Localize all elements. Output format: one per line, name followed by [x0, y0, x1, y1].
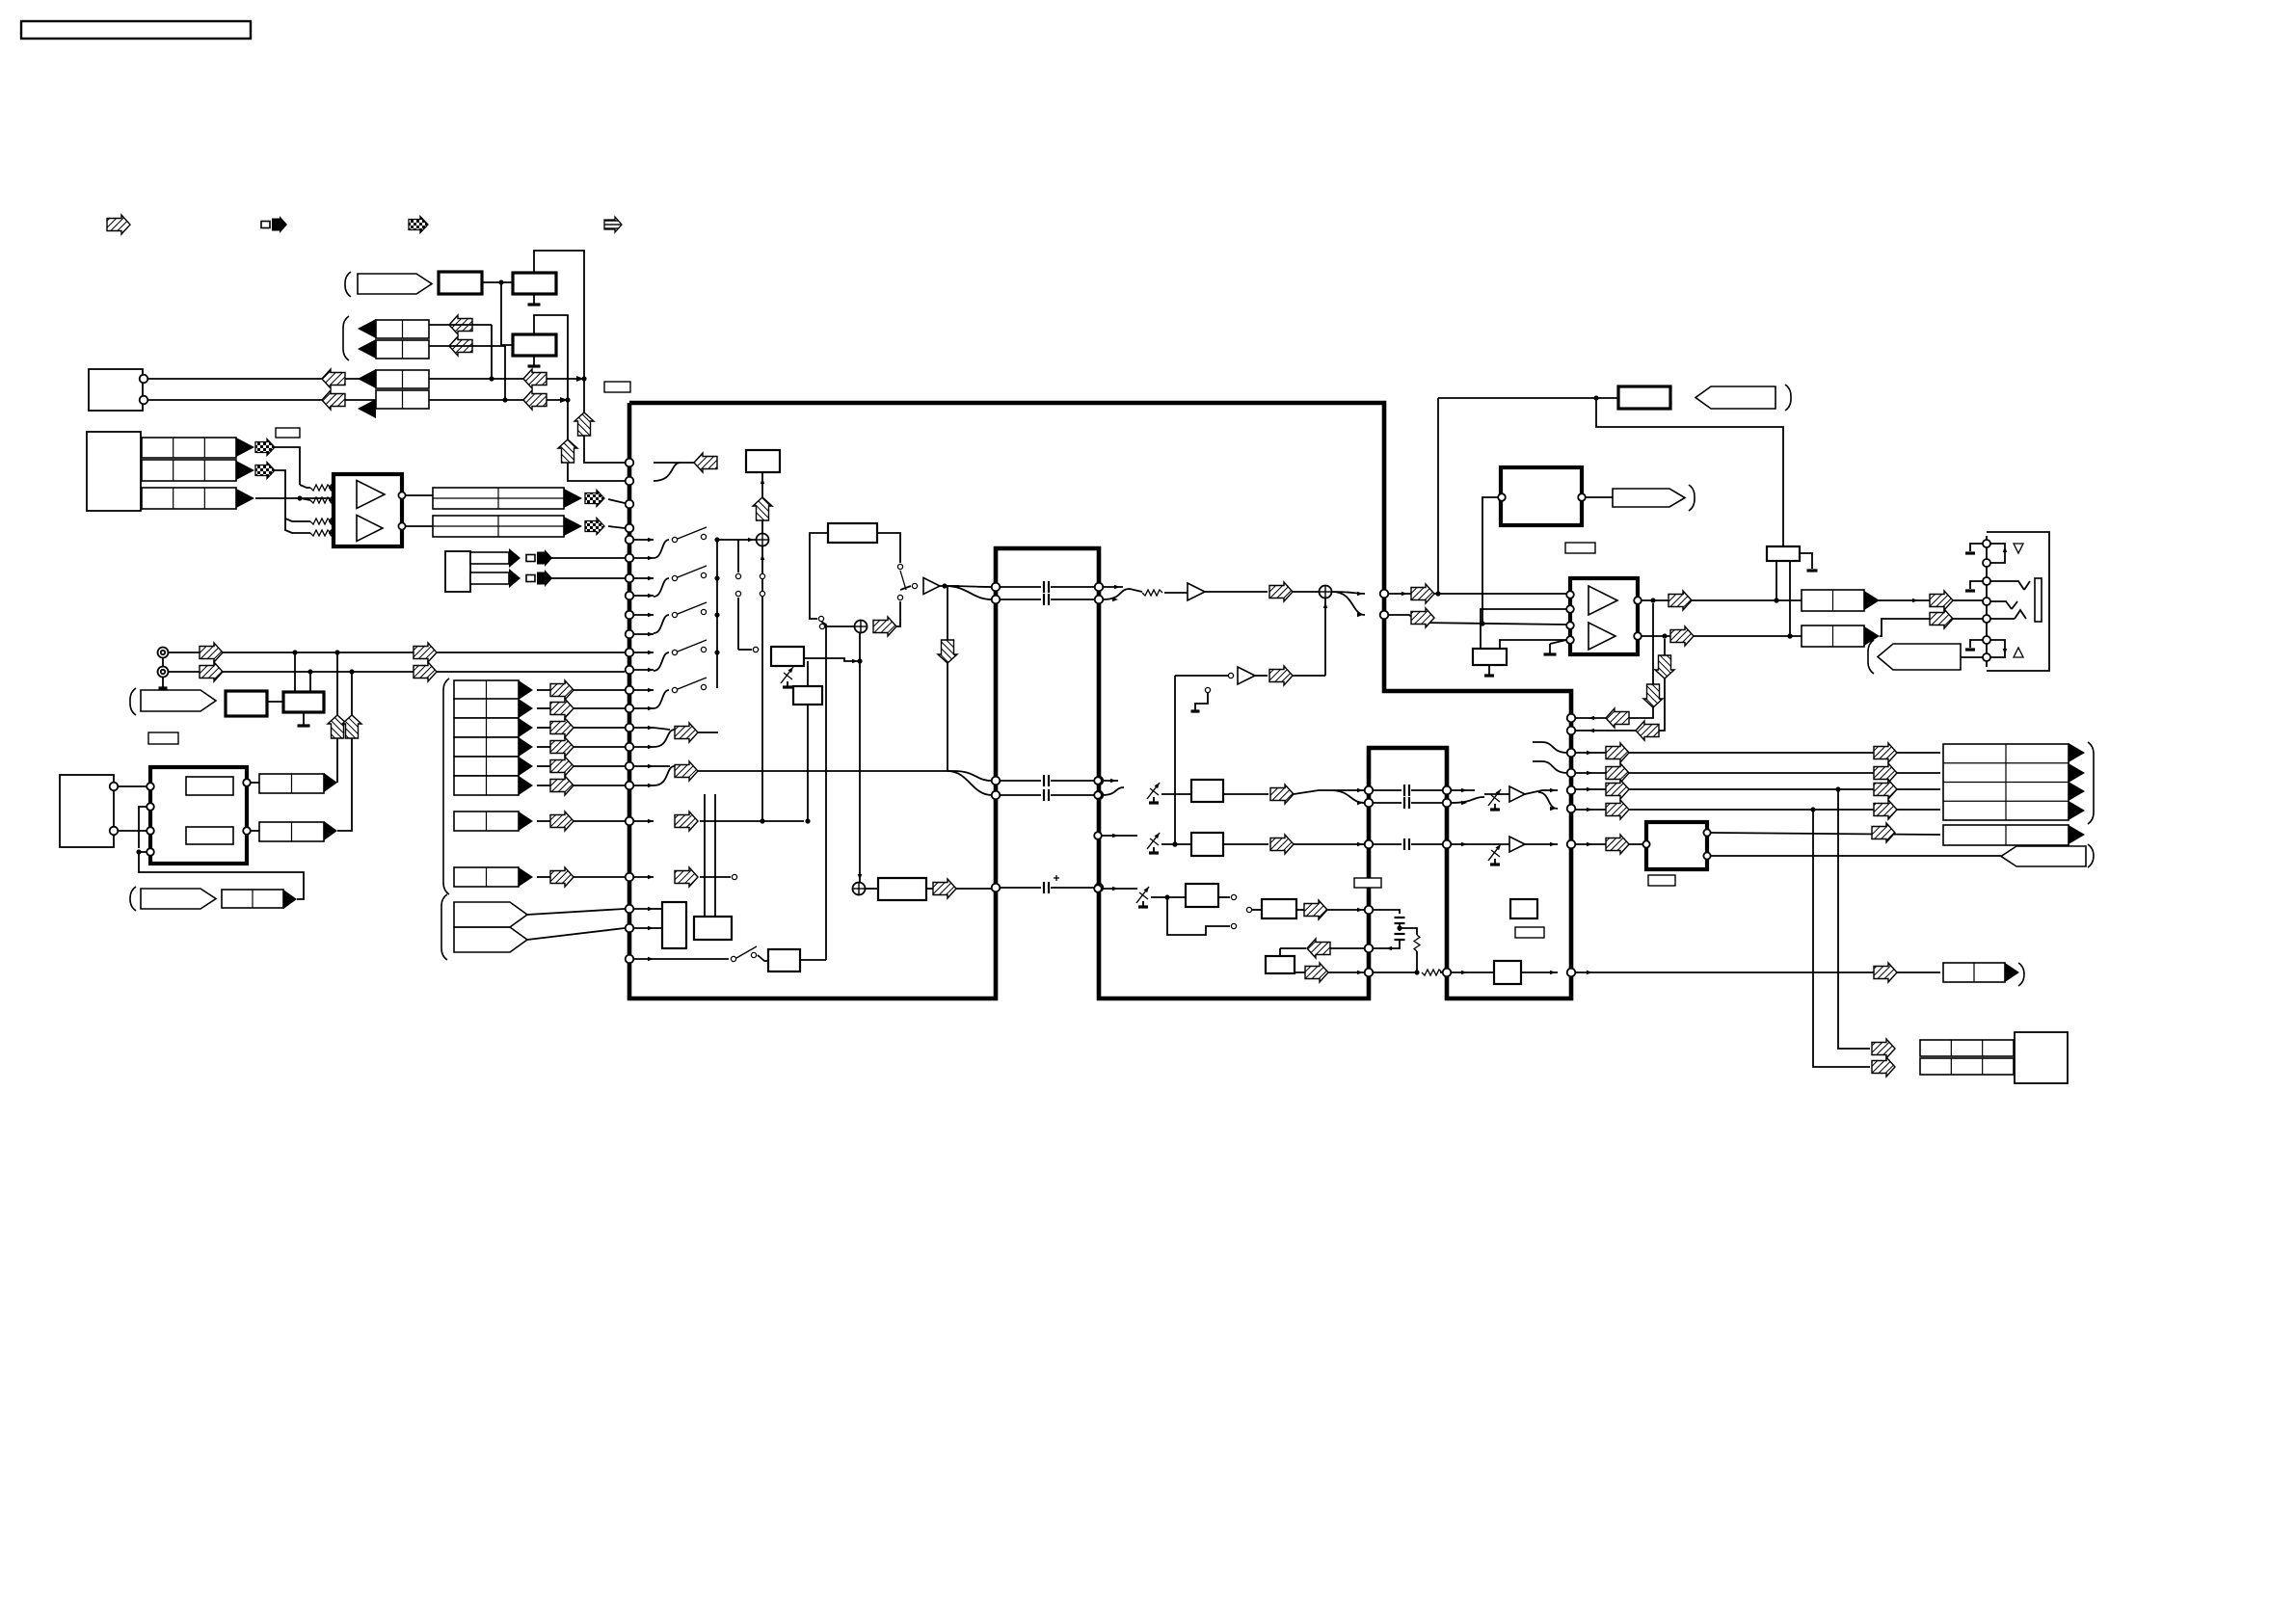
row 995: [654, 946, 757, 962]
tag AUX: [141, 690, 216, 711]
pin: [1567, 969, 1576, 977]
wire: [547, 557, 625, 559]
ground stub: [1800, 553, 1818, 571]
wire jog: [1880, 619, 1983, 636]
pin: [1365, 906, 1374, 915]
wire: [1711, 833, 1940, 835]
wire vert x857: [821, 622, 826, 960]
jack gnd: [1965, 544, 1983, 553]
connector arrow: [2014, 1039, 2028, 1058]
table S8: [454, 867, 519, 887]
wire: [118, 785, 147, 787]
pin: [1578, 493, 1586, 501]
hatched arrow: [1269, 582, 1293, 601]
wire: [527, 928, 625, 940]
legend hatched-arrow symbol: [107, 215, 130, 234]
pin: [1567, 714, 1576, 723]
wire S2: [537, 707, 625, 709]
vert drop1: [1838, 789, 1870, 1049]
wire S5: [537, 765, 625, 767]
wire: [1218, 894, 1237, 899]
contact: [760, 573, 764, 578]
pin: [992, 596, 1001, 604]
tag TU1: [358, 274, 432, 294]
pin: [1095, 791, 1104, 800]
wire: [1164, 592, 1268, 593]
wire verticals: [705, 794, 715, 917]
hatched arrow down: [1643, 684, 1663, 707]
wire jog: [139, 807, 147, 848]
inner box: [186, 777, 233, 795]
box SP: [2015, 1032, 2068, 1083]
pin: [626, 459, 634, 467]
wire stub: [633, 957, 654, 962]
connector CN-A: [87, 432, 141, 511]
wire: [608, 526, 625, 528]
pin: [626, 817, 634, 826]
table: [1943, 825, 2069, 845]
wire: [825, 625, 854, 627]
pin: [1634, 632, 1642, 640]
wire: [1484, 842, 1558, 847]
vert drop2: [1813, 810, 1870, 1067]
hatched arrow: [1874, 800, 1897, 819]
wire ctl2: [1437, 398, 1439, 594]
bracket: [130, 688, 136, 715]
connector CN-FM: [60, 775, 114, 847]
wire stub: [633, 594, 654, 599]
checkered arrow: [585, 519, 604, 535]
pin: [626, 724, 634, 732]
pin: [1703, 852, 1710, 859]
wire: [758, 955, 768, 961]
wire S to right pins: [1332, 592, 1365, 618]
hatched arrow S2: [550, 699, 574, 718]
wire: [866, 888, 878, 890]
pin: [140, 375, 148, 384]
wire A1 route: [275, 447, 300, 485]
switch bus: [714, 537, 719, 688]
jack switch2: [1990, 640, 2007, 657]
varres: [1136, 886, 1151, 907]
hatched arrow: [1270, 835, 1294, 854]
connector arrow: [1864, 626, 1880, 646]
pin: [147, 783, 154, 790]
pin: [1095, 884, 1104, 892]
hatched arrow C2: [449, 336, 472, 356]
wire: [1961, 656, 1983, 658]
wire: [1373, 971, 1417, 973]
wire row840: [1575, 807, 1940, 811]
capacitor: [1044, 594, 1049, 605]
pin: [626, 686, 634, 695]
wire gain out: [804, 658, 860, 663]
wire preamp out2: [406, 525, 433, 527]
table FM2: [259, 822, 324, 841]
pin: [1567, 727, 1576, 735]
wire A3 route: [255, 495, 330, 500]
wire: [267, 701, 283, 703]
wire: [1440, 971, 1443, 973]
pin: [626, 955, 634, 964]
hatched arrow: [694, 453, 717, 472]
pin: [992, 791, 1001, 800]
preamp U1: [334, 474, 402, 546]
wire stub: [633, 688, 654, 693]
wire: [1711, 855, 2001, 857]
connector arrow S3: [519, 718, 533, 737]
connector arrow: [564, 517, 582, 536]
pin: [147, 827, 154, 835]
hatched arrow: [1606, 763, 1629, 783]
pin: [243, 779, 251, 786]
wire: [926, 888, 992, 890]
pin: [626, 554, 634, 563]
connector arrow: [509, 569, 521, 588]
table A3: [142, 488, 236, 509]
box FB2: [828, 523, 877, 543]
pin: [626, 649, 634, 657]
wire: [1451, 842, 1484, 847]
wire pair: [654, 728, 718, 747]
row 910 wire: [700, 874, 737, 879]
wire pair merge: [654, 578, 669, 597]
pin: [398, 522, 405, 529]
contact: [819, 624, 824, 628]
switch: [672, 678, 707, 693]
hatched arrow: [200, 662, 223, 681]
connector arrow: [2069, 763, 2085, 783]
pin: [626, 477, 634, 486]
capacitor: [1404, 797, 1409, 809]
bracket: [1868, 640, 1874, 674]
wire pair merge: [654, 652, 669, 671]
loop right: [877, 533, 906, 600]
wire S1: [537, 689, 625, 691]
pin: [626, 500, 634, 509]
wire: [1102, 834, 1137, 838]
hatched arrow C1: [449, 315, 472, 334]
vert 1219: [1172, 676, 1177, 847]
switch: [672, 640, 707, 655]
table: [470, 552, 509, 564]
pin: [1365, 945, 1374, 953]
pin: [626, 762, 634, 771]
wire oplus2 to oplus4: [857, 633, 862, 882]
pin: [626, 536, 634, 545]
wire up: [337, 672, 361, 831]
label: [604, 382, 630, 392]
tag PHONES: [1878, 644, 1961, 670]
box EQ1: [1191, 780, 1223, 802]
hatched arrow: [322, 390, 345, 410]
connector CN-D: [89, 369, 143, 411]
wire row819: [1575, 786, 1940, 791]
bracket: [1689, 485, 1695, 511]
wire backfeed1: [1575, 603, 1653, 720]
label: [276, 428, 300, 438]
wire: [527, 909, 625, 915]
bracket: [130, 887, 136, 911]
title box: [21, 21, 251, 39]
connector arrow: [509, 548, 521, 568]
connector arrow D1: [358, 369, 376, 388]
box AMP6: [1494, 961, 1521, 984]
capacitor: [1044, 581, 1049, 593]
table S1: [454, 680, 519, 700]
table FM1: [259, 774, 324, 793]
jack pin: [1983, 615, 1990, 623]
wire out1: [1642, 598, 1983, 602]
connector arrow: [1864, 591, 1880, 610]
pin: [330, 518, 336, 524]
box MODE2: [694, 917, 732, 940]
switch: [672, 602, 707, 618]
label: [1354, 878, 1381, 888]
pin: [1567, 749, 1576, 758]
wire stub: [633, 784, 654, 788]
table: [1920, 1058, 2014, 1075]
RCA jack: [158, 648, 169, 670]
wire fb top: [1280, 946, 1365, 956]
wire S to slit pin: [948, 771, 992, 795]
connector arrow A1: [236, 438, 254, 457]
table S6: [454, 776, 519, 795]
varres: [1488, 843, 1503, 865]
pin: [1642, 840, 1649, 847]
box EQ3: [1186, 884, 1218, 907]
table: [1802, 625, 1864, 647]
pin: [1443, 969, 1452, 977]
wire row781: [1575, 751, 1940, 756]
wire row876: [1575, 842, 1642, 847]
varres: [1147, 832, 1161, 853]
op-amp: [357, 481, 385, 509]
hatched arrow: [200, 643, 223, 662]
wire S: [1294, 788, 1365, 806]
legend checkered-arrow symbol: [409, 217, 428, 233]
hatched arrow up: [558, 439, 577, 463]
jack bus: [1986, 536, 1988, 667]
ground below B2: [528, 294, 541, 305]
wire oplus1 up from below: [760, 546, 764, 824]
hatched arrow: [1930, 609, 1953, 628]
wire r1: [300, 485, 310, 488]
jack sleeve: [2035, 578, 2042, 622]
pin: [1094, 777, 1102, 785]
checkered arrow: [255, 439, 275, 456]
wire: [251, 830, 259, 832]
wire S8: [537, 876, 625, 878]
contact: [753, 647, 758, 652]
table S7: [454, 811, 519, 831]
pin: [626, 611, 634, 620]
table S5: [454, 757, 519, 776]
connector arrow S2: [519, 699, 533, 718]
wire junction down to B3: [501, 282, 513, 345]
hatched arrow S3: [550, 718, 574, 737]
table: [1920, 1040, 2014, 1056]
bracket: [2088, 742, 2094, 824]
wire: [654, 927, 662, 929]
hatched arrow: [675, 811, 698, 831]
pin: [1498, 493, 1506, 501]
hatched arrow: [1874, 763, 1897, 783]
pin: [147, 803, 154, 811]
pin: [1365, 786, 1374, 795]
box MODE: [662, 902, 686, 948]
contact chain: [735, 540, 758, 652]
connector arrow: [564, 489, 582, 508]
checkered arrow: [585, 491, 604, 507]
table: [1943, 963, 2005, 982]
pin: [1094, 791, 1102, 799]
pin: [1380, 590, 1389, 599]
wire: [309, 672, 311, 692]
hatched arrow: [322, 369, 345, 388]
capacitor: [1044, 775, 1049, 786]
connector arrow: [324, 821, 337, 840]
wire: [1000, 887, 1095, 889]
hatched arrow left: [1606, 708, 1629, 728]
block U10: [1646, 822, 1707, 869]
jack tri: [2014, 544, 2023, 553]
wire D2: [147, 397, 571, 403]
box-arrow: [526, 570, 552, 587]
wire: [1161, 793, 1191, 795]
hatched arrow: [1874, 780, 1897, 799]
wire div out1: [1774, 561, 1778, 603]
wire stub: [633, 926, 654, 931]
pin: [147, 848, 154, 856]
capacitor: [1044, 789, 1049, 801]
connector arrow: [2014, 1057, 2028, 1077]
wire row802: [1575, 771, 1940, 776]
pin: [1567, 786, 1576, 795]
switch: [672, 566, 707, 581]
row 852 wire: [700, 820, 804, 822]
pin: [1365, 969, 1374, 977]
pin: [398, 492, 405, 498]
box OUT: [878, 878, 926, 900]
ground below B3: [528, 356, 541, 366]
hatched arrow S8: [550, 867, 574, 887]
resistor: [310, 485, 331, 491]
sum oplus4: [853, 883, 866, 895]
bracket: [2088, 844, 2094, 867]
box R2: [283, 692, 324, 712]
hatched arrow: [1930, 591, 1953, 610]
box EQ4: [1262, 899, 1296, 918]
hatched arrow: [1411, 584, 1434, 603]
contact: [1228, 673, 1233, 678]
label: [1648, 875, 1675, 886]
jack gnd: [1965, 640, 1983, 650]
wire: [1252, 909, 1262, 911]
box B2: [513, 273, 556, 294]
hatched arrow: [1872, 823, 1895, 842]
pin: [626, 905, 634, 914]
hatched arrow: [414, 662, 437, 681]
label: [1565, 543, 1595, 553]
pin: [992, 583, 1001, 592]
pin: [140, 396, 148, 405]
connector arrow: [2005, 963, 2019, 982]
box FB1: [746, 450, 780, 472]
pin: [1567, 840, 1576, 849]
connector arrow D2: [358, 399, 376, 418]
wire vert bus A: [584, 379, 625, 463]
wire: [654, 463, 694, 481]
wire stub: [633, 907, 654, 912]
box B3: [513, 334, 556, 356]
table C2: [376, 340, 429, 359]
wire FM bottom: [136, 849, 304, 899]
connector arrow: [2069, 743, 2085, 762]
wire: [329, 488, 334, 533]
amp A5: [1509, 837, 1525, 852]
wire A2 route: [275, 470, 310, 521]
tag left: [1695, 386, 1775, 409]
hatched arrow: [1874, 743, 1897, 762]
pin: [626, 705, 634, 713]
wire S7: [537, 820, 625, 822]
pin: [1094, 832, 1102, 839]
inner box: [186, 827, 233, 844]
wire: [1481, 609, 1566, 649]
connector arrow: [283, 890, 297, 909]
box FB5: [1266, 956, 1295, 973]
hatched arrow: [1606, 800, 1629, 819]
wire pair from pins: [1103, 585, 1142, 602]
wire vert bus B: [568, 400, 625, 481]
hatched arrow: [1270, 785, 1294, 804]
wire oplus2 out: [896, 601, 900, 626]
hatched arrow: [1606, 780, 1629, 799]
connector arrow S6: [519, 776, 533, 795]
wire B1-B2: [482, 279, 513, 284]
wire: [1293, 591, 1319, 593]
connector arrow C2: [358, 339, 376, 359]
wire: [1161, 841, 1191, 846]
pin: [1443, 799, 1452, 808]
pin: [1095, 583, 1104, 592]
ground: [298, 712, 310, 726]
tag OUT1: [1613, 489, 1685, 507]
label: [148, 732, 178, 744]
hatched arrow S5: [550, 757, 574, 776]
sum oplus1: [757, 534, 769, 546]
wire: [1175, 675, 1268, 677]
legend striped-arrow symbol: [604, 217, 622, 232]
box FILT: [1618, 386, 1670, 409]
hatched arrow: [675, 867, 698, 887]
hatched arrow left: [1307, 939, 1330, 958]
wire ch1: [1388, 591, 1566, 596]
amp A1: [923, 578, 940, 595]
pin: [1703, 829, 1710, 836]
wire up: [328, 652, 347, 783]
table S4: [454, 737, 519, 757]
wire A2b: [285, 519, 310, 533]
wire pair: [1102, 779, 1124, 795]
IC U3 main block outline: [629, 403, 1571, 998]
wire: [118, 830, 147, 832]
resistor: [310, 530, 331, 536]
connector arrow S1: [519, 680, 533, 700]
resistor: [1422, 970, 1442, 975]
op-amp: [357, 516, 383, 542]
